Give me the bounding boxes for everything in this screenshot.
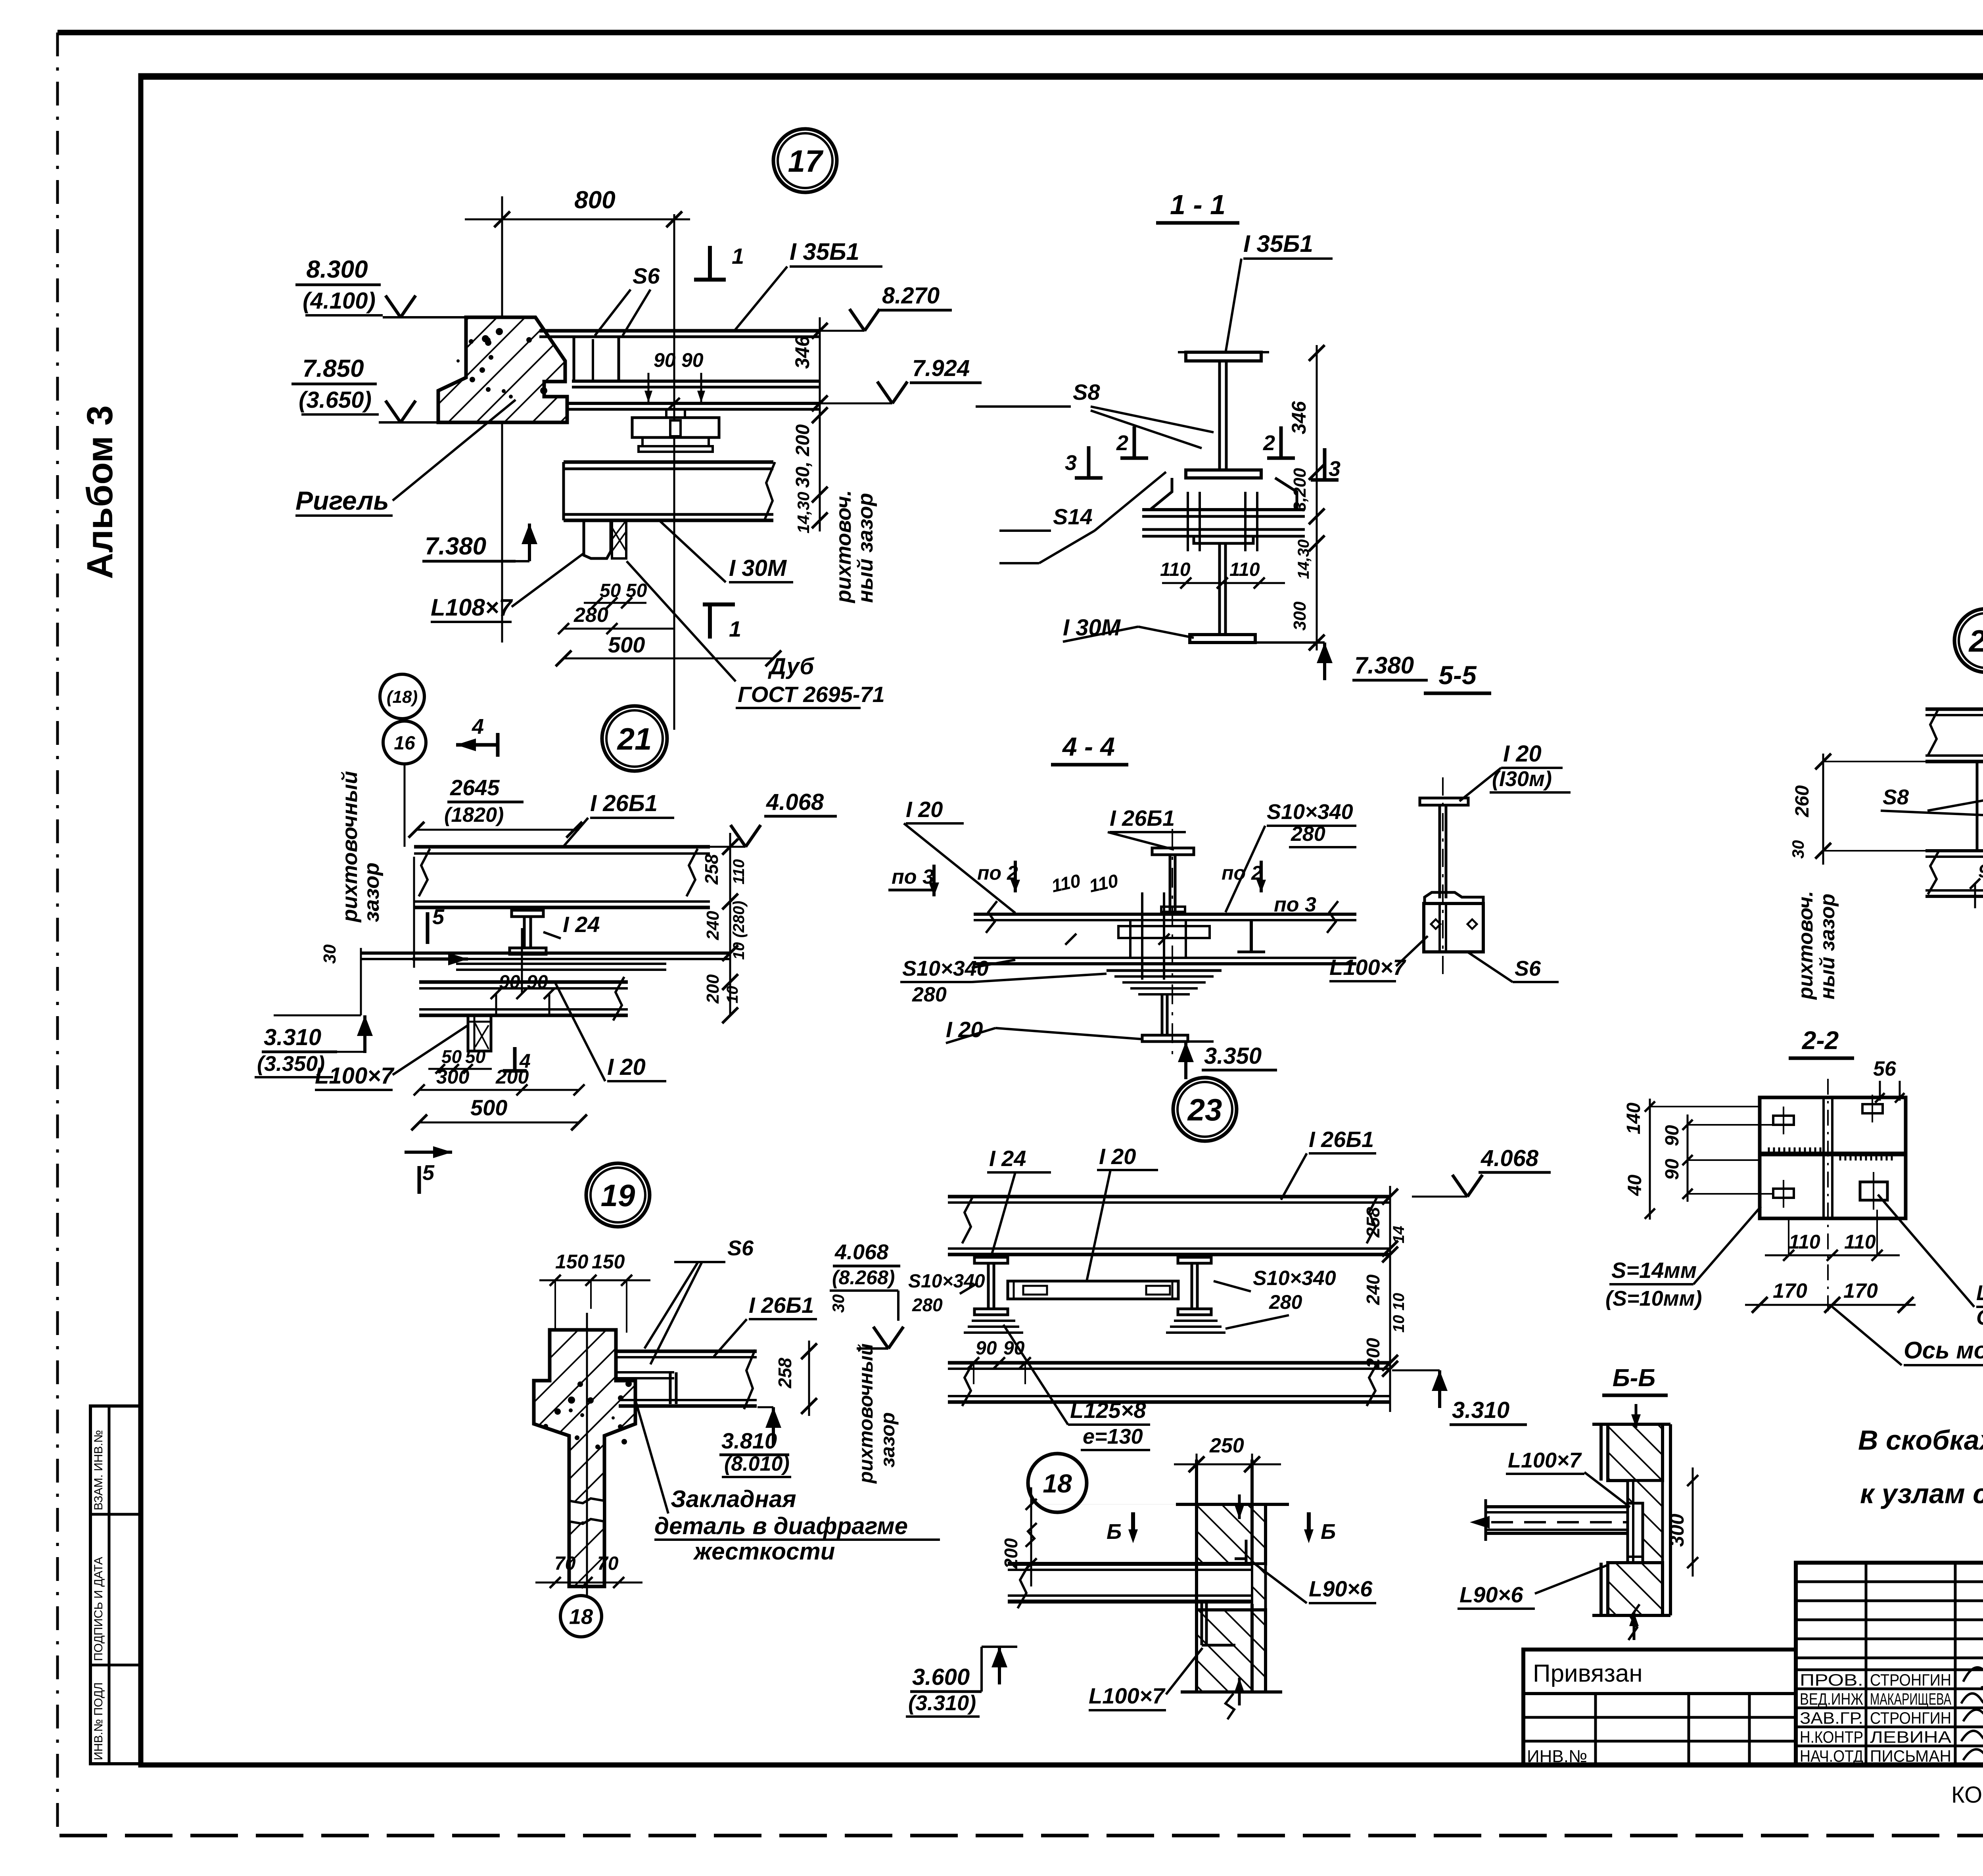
node21 dim 50 50 xyxy=(428,1046,492,1074)
svg-text:5: 5 xyxy=(432,905,445,929)
svg-text:жесткости: жесткости xyxy=(693,1538,835,1565)
node23 top beam xyxy=(948,1196,1390,1243)
node 17 circle xyxy=(773,129,837,192)
node21 dim 300 200 xyxy=(414,1066,585,1095)
section mark 4 bottom xyxy=(503,1047,531,1072)
svg-text:ИНВ.№: ИНВ.№ xyxy=(1527,1747,1587,1766)
svg-text:L100×7: L100×7 xyxy=(1329,955,1406,980)
1-1 dim 14 30 rot xyxy=(1295,539,1312,579)
svg-text:Шайба 70×70×14: Шайба 70×70×14 xyxy=(1976,1281,1983,1305)
node21 angle piece xyxy=(468,1015,491,1051)
svg-text:по 3: по 3 xyxy=(892,865,934,888)
svg-text:ВЗАМ. ИНВ.№: ВЗАМ. ИНВ.№ xyxy=(92,1430,105,1510)
dim 346 rot xyxy=(791,335,813,369)
4-4 S10x340 left xyxy=(900,957,1107,1006)
svg-text:ный зазор: ный зазор xyxy=(853,493,877,603)
svg-text:4 - 4: 4 - 4 xyxy=(1062,732,1115,761)
svg-text:Альбом 3: Альбом 3 xyxy=(80,405,120,579)
2-2 center split xyxy=(1824,1097,1832,1218)
svg-text:ВЕД.ИНЖ: ВЕД.ИНЖ xyxy=(1800,1690,1863,1708)
svg-text:90: 90 xyxy=(681,349,704,371)
svg-text:I 35Б1: I 35Б1 xyxy=(790,238,859,265)
svg-text:22: 22 xyxy=(1968,623,1983,658)
node23 bottom beam xyxy=(948,1362,1390,1406)
1-1 mark 2 left xyxy=(1116,426,1148,458)
svg-text:260: 260 xyxy=(1792,785,1813,817)
svg-text:Привязан: Привязан xyxy=(1533,1660,1643,1687)
svg-text:ный зазор: ный зазор xyxy=(1816,894,1839,999)
svg-text:В скобках даны размеры и отмет: В скобках даны размеры и отметки xyxy=(1858,1425,1983,1456)
рихтовочный зазор vertical node17 xyxy=(832,490,877,604)
node19 dim 258 xyxy=(775,1341,817,1416)
node17 bearing stack xyxy=(632,409,719,452)
node21 elev 3310 xyxy=(255,1015,373,1077)
2-2 upper plate xyxy=(1760,1097,1906,1153)
svg-text:L125×8: L125×8 xyxy=(1070,1398,1146,1423)
svg-text:500: 500 xyxy=(608,632,645,657)
svg-text:8.300: 8.300 xyxy=(306,256,368,283)
node23 elev 3310 xyxy=(1392,1370,1527,1425)
svg-text:23: 23 xyxy=(1187,1092,1222,1127)
Б-Б wall hatch lower xyxy=(1608,1563,1663,1615)
svg-text:S8: S8 xyxy=(1883,785,1909,809)
1-1 I30M top flange xyxy=(1194,536,1253,543)
svg-text:(3.310): (3.310) xyxy=(908,1691,976,1715)
svg-text:L100×7: L100×7 xyxy=(1508,1448,1582,1472)
section mark 5 top xyxy=(412,905,468,965)
svg-text:СТРОНГИН: СТРОНГИН xyxy=(1870,1709,1951,1727)
4-4 top plate xyxy=(974,901,1356,933)
svg-text:250: 250 xyxy=(1209,1434,1244,1457)
svg-text:1: 1 xyxy=(732,244,744,269)
svg-text:зазор: зазор xyxy=(360,863,384,922)
привязан grid h1 xyxy=(1523,1716,1796,1719)
5-5 I beam web xyxy=(1440,805,1446,898)
node19 закладная label xyxy=(635,1400,940,1565)
section 4-4 title xyxy=(1051,732,1128,765)
title block привязан box xyxy=(1523,1650,1796,1765)
node23 I26Б1 label xyxy=(1281,1127,1376,1200)
2-2 dim 170 170 xyxy=(1745,1279,1916,1313)
dim 500 xyxy=(556,632,781,666)
node21 dim 110 rot xyxy=(730,859,748,884)
svg-text:L108×7: L108×7 xyxy=(431,594,513,621)
1-1 S14 label xyxy=(999,472,1166,563)
node18 beam xyxy=(1008,1564,1252,1608)
elev 7.924 xyxy=(820,355,982,403)
node 21 circle xyxy=(602,706,667,771)
dim 50 50 xyxy=(584,580,647,608)
4-4 dim 110 110 xyxy=(1049,870,1170,945)
1-1 plate xyxy=(1142,510,1305,536)
1-1 dim 346 rot xyxy=(1288,401,1310,434)
node21 dim 90 90 xyxy=(491,928,555,1015)
svg-text:18: 18 xyxy=(1043,1469,1072,1498)
svg-text:90: 90 xyxy=(654,349,676,371)
signatures scribbles xyxy=(1961,1667,1983,1761)
svg-text:Б: Б xyxy=(1107,1520,1122,1544)
svg-text:4: 4 xyxy=(519,1050,531,1072)
4-4 по2 left xyxy=(977,861,1020,892)
node23 dim 90 90 xyxy=(968,1338,1031,1384)
Б-Б wall cut arrow top xyxy=(1631,1404,1641,1428)
svg-text:I 26Б1: I 26Б1 xyxy=(590,790,658,816)
svg-text:(1820): (1820) xyxy=(444,804,504,827)
node17 center line left xyxy=(501,196,503,643)
svg-text:рихтовочный: рихтовочный xyxy=(855,1343,877,1484)
node19 dim 30 rot xyxy=(829,1294,848,1313)
4-4 по2 right xyxy=(1222,861,1266,892)
svg-text:I 26Б1: I 26Б1 xyxy=(749,1293,814,1318)
5-5 S6 label xyxy=(1467,952,1559,982)
svg-text:Б-Б: Б-Б xyxy=(1613,1364,1655,1392)
node23 left I section xyxy=(974,1257,1008,1315)
node18 mark Б left xyxy=(1107,1512,1138,1544)
svg-text:90: 90 xyxy=(1662,1159,1683,1180)
svg-text:рихтовочный: рихтовочный xyxy=(338,771,362,923)
1-1 right dim chain xyxy=(1309,345,1325,650)
2-2 weld serration xyxy=(1769,1147,1892,1161)
dim 2645 text xyxy=(444,775,524,827)
svg-text:(18): (18) xyxy=(387,687,418,707)
привязан text xyxy=(1533,1660,1643,1687)
node22 top beam xyxy=(1925,708,1983,762)
node22 left dims xyxy=(1789,754,1925,865)
4-4 middle bolts xyxy=(1118,892,1210,980)
svg-text:70: 70 xyxy=(554,1553,576,1574)
svg-text:деталь в диафрагме: деталь в диафрагме xyxy=(654,1513,908,1539)
node18 hatch top line xyxy=(1176,1503,1289,1506)
svg-text:Ригель: Ригель xyxy=(295,486,389,515)
2-2 slot center lines xyxy=(1784,1095,1874,1210)
svg-text:17: 17 xyxy=(788,144,824,178)
svg-text:5-5: 5-5 xyxy=(1438,660,1477,690)
1-1 dim 3 200 rot xyxy=(1290,468,1310,512)
node23 dim 258 rot xyxy=(1363,1207,1408,1243)
svg-text:200: 200 xyxy=(703,974,723,1004)
node21 beam bottom flange xyxy=(414,902,710,907)
node21 dim 200 rot xyxy=(703,974,723,1004)
left stamp strip box xyxy=(90,1406,141,1764)
1-1 S8 label xyxy=(976,380,1214,448)
1-1 elev 7380 xyxy=(1255,643,1428,680)
node 22 circle xyxy=(1954,609,1983,672)
svg-text:10 (280): 10 (280) xyxy=(730,901,748,960)
svg-text:21: 21 xyxy=(617,721,652,756)
привязан row line xyxy=(1523,1692,1796,1695)
svg-text:(S=10мм): (S=10мм) xyxy=(1605,1287,1702,1310)
svg-text:ПРОВ.: ПРОВ. xyxy=(1800,1671,1863,1689)
node23 I20 label xyxy=(1087,1144,1158,1281)
svg-text:(8.010): (8.010) xyxy=(724,1452,790,1475)
svg-text:40: 40 xyxy=(1624,1174,1645,1196)
svg-text:1: 1 xyxy=(729,616,741,641)
svg-text:280: 280 xyxy=(912,983,947,1006)
beam I35 support plate xyxy=(567,403,820,409)
svg-text:к узлам с предлогом „ по“.: к узлам с предлогом „ по“. xyxy=(1860,1478,1983,1509)
svg-text:18: 18 xyxy=(569,1605,593,1629)
node19 beam xyxy=(616,1350,757,1409)
4-4 по3 right xyxy=(1237,893,1316,952)
node18 wall hatch upper xyxy=(1197,1504,1266,1564)
Б-Б L90x6 label xyxy=(1458,1565,1609,1609)
svg-text:L90×6: L90×6 xyxy=(1309,1576,1373,1601)
svg-text:I 26Б1: I 26Б1 xyxy=(1110,806,1175,831)
svg-text:I 30М: I 30М xyxy=(729,555,787,581)
node23 S10 left xyxy=(908,1271,985,1315)
svg-text:90: 90 xyxy=(1662,1125,1683,1146)
1-1 dim 110 110 xyxy=(1160,559,1285,589)
node19 circle 18 xyxy=(560,1596,602,1637)
svg-text:3: 3 xyxy=(1065,451,1077,475)
svg-text:Дуб: Дуб xyxy=(767,654,815,679)
node23 I24 label xyxy=(987,1146,1051,1255)
svg-text:S6: S6 xyxy=(727,1236,754,1260)
1-1 I35 top flange xyxy=(1178,352,1269,361)
beam I30M bottom xyxy=(564,514,773,520)
svg-text:S10×340: S10×340 xyxy=(1253,1267,1336,1290)
node18 dim 250 xyxy=(1174,1434,1281,1475)
node18 angle below beam xyxy=(1197,1602,1235,1645)
Б-Б beam lines xyxy=(1470,1499,1628,1541)
outer border top line xyxy=(58,30,1983,35)
album label xyxy=(80,405,120,579)
outer border left dash-dot line xyxy=(56,33,59,1834)
I 30M label xyxy=(658,520,793,582)
svg-text:200: 200 xyxy=(1363,1338,1383,1369)
node19 center line xyxy=(586,1313,588,1596)
4-4 I20 bottom label xyxy=(946,1017,1142,1043)
node23 dim 200 rot xyxy=(1363,1338,1383,1369)
section mark 1 bottom xyxy=(703,604,741,641)
node17 S6 weld label xyxy=(595,263,660,336)
ригель text xyxy=(295,400,516,516)
svg-text:5: 5 xyxy=(422,1161,435,1185)
svg-text:300: 300 xyxy=(1666,1513,1688,1547)
signature table col 1 xyxy=(1865,1563,1868,1765)
node 18 circle xyxy=(1028,1454,1087,1512)
svg-text:30, 200: 30, 200 xyxy=(792,424,813,488)
svg-text:170: 170 xyxy=(1773,1279,1807,1302)
node19 рихтовочный vertical xyxy=(855,1343,899,1484)
2-2 s14 label xyxy=(1605,1207,1761,1310)
svg-text:ЛЕВИНА: ЛЕВИНА xyxy=(1870,1728,1951,1746)
svg-text:СТРОНГИН: СТРОНГИН xyxy=(1870,1671,1951,1689)
node18 wall hatch strip xyxy=(1252,1564,1266,1610)
node18 mark Б right xyxy=(1304,1512,1336,1544)
dim 280 xyxy=(558,604,674,634)
svg-text:4.068: 4.068 xyxy=(834,1240,888,1264)
node21 circle16 stem xyxy=(404,764,406,847)
Б-Б L100x7 label xyxy=(1506,1448,1630,1507)
4-4 washer stack xyxy=(1107,971,1222,994)
svg-text:200: 200 xyxy=(1001,1538,1021,1569)
svg-text:7.380: 7.380 xyxy=(1354,652,1414,679)
note line 1 xyxy=(1858,1425,1983,1456)
node19 dim 70 70 xyxy=(535,1553,642,1588)
svg-text:346: 346 xyxy=(1288,401,1310,434)
node17 wood block xyxy=(584,520,626,558)
2-2 ось монорельса xyxy=(1832,1307,1983,1365)
Б-Б wall edges xyxy=(1592,1424,1670,1640)
1-1 mark 3 left xyxy=(1065,446,1103,478)
svg-text:70: 70 xyxy=(597,1553,619,1574)
дуб label xyxy=(627,561,885,708)
svg-text:300: 300 xyxy=(436,1066,470,1088)
node19 I26Б1 label xyxy=(714,1293,817,1356)
2-2 lower plate xyxy=(1760,1155,1906,1218)
svg-text:50: 50 xyxy=(626,580,647,601)
svg-text:150: 150 xyxy=(592,1251,625,1273)
Б-Б wall cut arrow bottom xyxy=(1629,1612,1639,1640)
svg-text:S8: S8 xyxy=(1073,380,1100,405)
svg-text:3.350: 3.350 xyxy=(1204,1043,1262,1069)
outer border bottom dashed line xyxy=(59,1834,1983,1838)
I 35Б1 label xyxy=(734,238,882,332)
svg-text:10: 10 xyxy=(724,986,741,1004)
svg-text:3.600: 3.600 xyxy=(912,1664,970,1690)
beam I35 bottom flange xyxy=(572,381,820,387)
node19 column break xyxy=(569,1498,604,1524)
svg-text:Н.КОНТР: Н.КОНТР xyxy=(1800,1728,1863,1746)
elev 8.300 mark xyxy=(383,295,468,317)
dim 800 text xyxy=(574,186,615,214)
node17 right dim chain xyxy=(812,317,828,531)
node19 S6 label xyxy=(644,1236,754,1364)
5-5 I20 label xyxy=(1459,741,1571,801)
svg-text:4.068: 4.068 xyxy=(766,789,824,815)
node21 dim 258 rot xyxy=(701,854,722,885)
svg-text:(8.268): (8.268) xyxy=(832,1266,895,1289)
svg-text:7.924: 7.924 xyxy=(912,355,970,381)
svg-text:ПИСЬМАН: ПИСЬМАН xyxy=(1870,1747,1951,1765)
svg-text:90: 90 xyxy=(976,1338,997,1359)
node21 right dim chain xyxy=(722,833,738,1023)
svg-text:280: 280 xyxy=(912,1295,943,1315)
привязан grid v1 xyxy=(1594,1694,1597,1765)
4-4 center line xyxy=(1172,829,1173,1055)
1-1 mark 2 right xyxy=(1263,426,1295,458)
node23 tie plate xyxy=(1008,1281,1178,1299)
svg-text:3.310: 3.310 xyxy=(264,1024,321,1050)
svg-text:3,200: 3,200 xyxy=(1290,468,1310,512)
4-4 по3 left xyxy=(888,865,939,896)
svg-text:2-2: 2-2 xyxy=(1802,1026,1839,1055)
section Б-Б title xyxy=(1602,1364,1668,1395)
svg-text:280: 280 xyxy=(1269,1291,1302,1313)
signature table rows xyxy=(1796,1582,1983,1746)
svg-text:ИНВ.№ ПОДЛ: ИНВ.№ ПОДЛ xyxy=(92,1682,105,1760)
dim 30 200 rot xyxy=(792,424,813,488)
1-1 I30M bottom flange xyxy=(1190,635,1255,643)
node21 lower beam top xyxy=(361,953,730,959)
svg-text:800: 800 xyxy=(574,186,615,214)
node23 bolt plates xyxy=(964,1321,1225,1333)
svg-text:МАКАРИЩЕВА: МАКАРИЩЕВА xyxy=(1870,1690,1951,1708)
node19 elev 3810 xyxy=(719,1407,791,1477)
node23 dim 240 rot xyxy=(1363,1274,1383,1305)
section 2-2 title xyxy=(1789,1026,1854,1058)
left stamp text inv xyxy=(92,1682,105,1760)
beam I30M top xyxy=(564,462,773,469)
section mark 5 bottom xyxy=(405,1146,452,1194)
node21 top beam xyxy=(414,847,710,896)
node17 center line right xyxy=(673,214,675,730)
node22 рихтовоч vertical xyxy=(1794,891,1839,1000)
svg-text:I 35Б1: I 35Б1 xyxy=(1243,230,1313,257)
svg-text:2645: 2645 xyxy=(450,775,500,800)
node23 right I section xyxy=(1178,1257,1211,1315)
svg-text:L90×6: L90×6 xyxy=(1459,1582,1523,1607)
svg-text:16: 16 xyxy=(394,733,415,754)
svg-text:14: 14 xyxy=(1390,1226,1408,1244)
node18 wall hatch lower xyxy=(1197,1610,1266,1692)
svg-text:зазор: зазор xyxy=(876,1412,899,1467)
node22 S8 label xyxy=(1881,785,1983,815)
2-2 dim 56 xyxy=(1873,1057,1904,1103)
elev 8.270 xyxy=(820,283,952,331)
1-1 gusset xyxy=(1150,478,1297,510)
node21 elev 3310 arrow2 xyxy=(274,1015,361,1017)
node18 L90x6 label xyxy=(1253,1563,1376,1603)
node23 dim 1010 rot xyxy=(1390,1293,1408,1333)
2-2 dim 110 110 xyxy=(1765,1210,1900,1261)
node 23 circle xyxy=(1173,1078,1237,1141)
svg-text:(I30м): (I30м) xyxy=(1492,767,1552,791)
4-4 lower I beam xyxy=(1142,994,1188,1042)
svg-text:346: 346 xyxy=(791,335,813,369)
elev 8.300 text xyxy=(295,256,383,315)
svg-text:3: 3 xyxy=(1329,457,1341,481)
svg-text:(3.650): (3.650) xyxy=(299,387,372,413)
1-1 I30M label xyxy=(1063,615,1194,642)
привязан grid h2 xyxy=(1523,1740,1796,1743)
svg-text:258: 258 xyxy=(775,1358,795,1389)
4-4 elev 3.350 xyxy=(1178,1042,1277,1079)
left stamp text podpis xyxy=(92,1557,105,1661)
node23 S10 right xyxy=(1214,1267,1336,1329)
node19 elev 4068 xyxy=(830,1240,903,1348)
node21 small circle 18 xyxy=(380,674,424,719)
svg-text:110: 110 xyxy=(1229,559,1260,580)
svg-text:Отв. в шайбе Ф20: Отв. в шайбе Ф20 xyxy=(1976,1306,1983,1329)
node21 L100x7 xyxy=(315,1025,468,1090)
elev 7.850 text xyxy=(292,355,379,414)
node19 dim 150 150 xyxy=(539,1251,650,1333)
привязан grid v3 xyxy=(1748,1694,1751,1765)
left stamp row line 2 xyxy=(90,1664,141,1667)
svg-text:e=130: e=130 xyxy=(1083,1425,1143,1448)
node18 dim 200 xyxy=(1001,1487,1176,1586)
beam I35 top flange xyxy=(539,331,820,337)
node18 angle above beam xyxy=(1235,1540,1252,1564)
svg-text:7.850: 7.850 xyxy=(302,355,364,382)
5-5 clamp box xyxy=(1424,892,1483,952)
1-1 I30M web xyxy=(1220,543,1225,635)
Б-Б dim 300 xyxy=(1666,1467,1698,1577)
5-5 diamond holes xyxy=(1431,919,1477,929)
svg-text:S10×340: S10×340 xyxy=(908,1271,985,1292)
top frame double line xyxy=(141,76,1983,80)
1-1 I35Б1 label xyxy=(1225,230,1333,353)
node23 right dim chain xyxy=(1382,1186,1398,1412)
svg-text:Ось монорельса: Ось монорельса xyxy=(1904,1337,1983,1364)
svg-text:I 24: I 24 xyxy=(563,912,600,937)
svg-text:14,30: 14,30 xyxy=(1295,539,1312,579)
svg-text:258: 258 xyxy=(1363,1207,1383,1238)
svg-text:ПОДПИСЬ И ДАТА: ПОДПИСЬ И ДАТА xyxy=(92,1557,105,1661)
node 19 circle xyxy=(586,1163,650,1227)
